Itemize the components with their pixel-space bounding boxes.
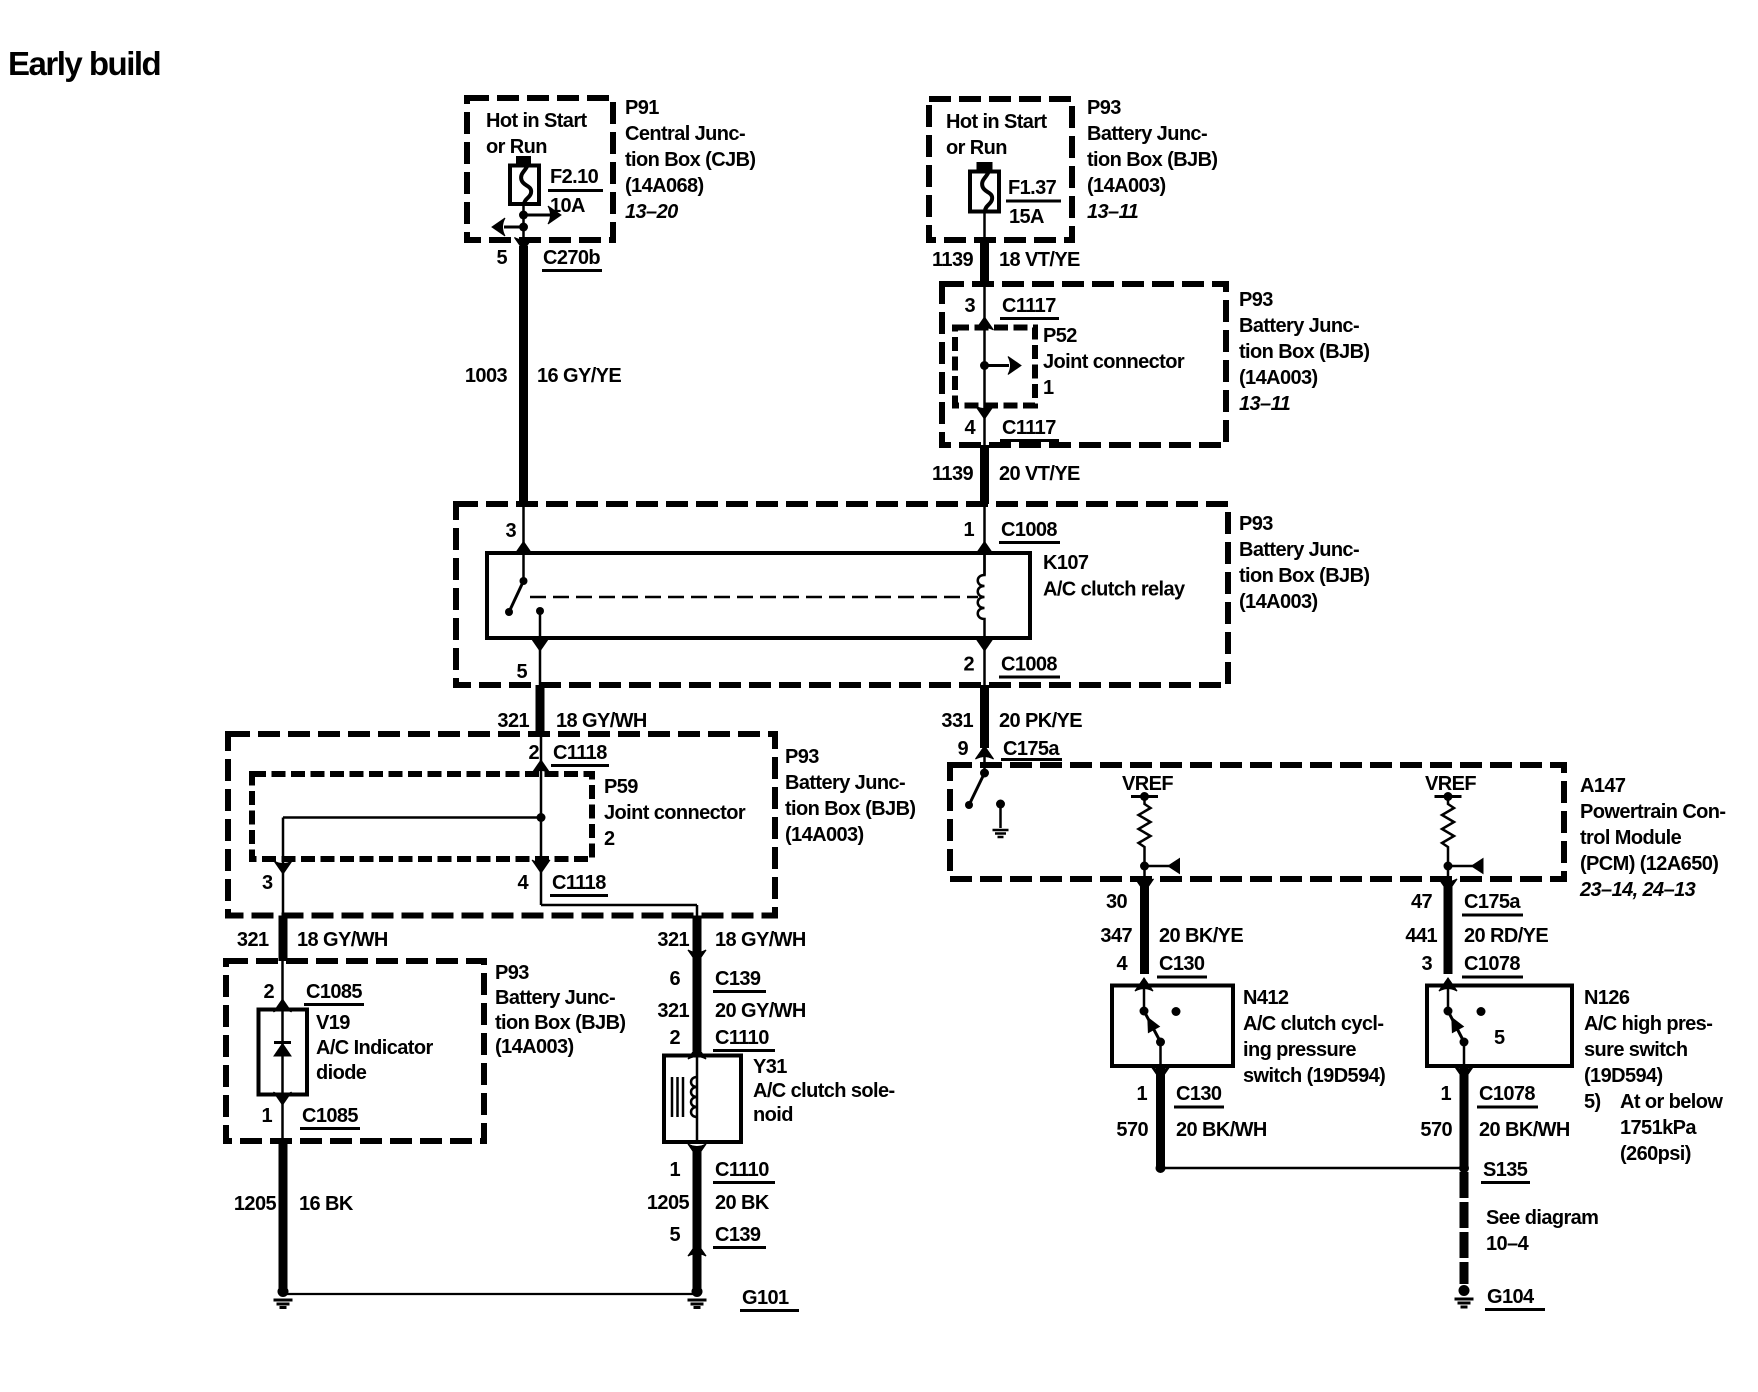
svg-text:(14A003): (14A003) (1239, 591, 1318, 613)
svg-text:F1.37: F1.37 (1008, 177, 1057, 199)
pin 2 C1085 (263, 961, 364, 1012)
svg-text:20 BK: 20 BK (715, 1192, 770, 1214)
wire to pin 3 (262, 818, 541, 916)
svg-text:18 GY/WH: 18 GY/WH (715, 929, 806, 951)
svg-text:347: 347 (1100, 925, 1132, 947)
svg-text:C1110: C1110 (715, 1159, 769, 1181)
diode V19 body (259, 1010, 308, 1142)
arrow at connector C270b (515, 238, 533, 251)
svg-text:2: 2 (669, 1027, 680, 1049)
svg-text:G101: G101 (742, 1287, 789, 1309)
svg-text:18 GY/WH: 18 GY/WH (297, 929, 388, 951)
svg-text:16 BK: 16 BK (299, 1193, 354, 1215)
svg-text:VREF: VREF (1425, 773, 1476, 795)
svg-text:20 RD/YE: 20 RD/YE (1464, 925, 1548, 947)
pin 2 C1008 (963, 638, 1060, 685)
svg-text:trol Module: trol Module (1580, 827, 1682, 849)
joint connector P52 inner box (955, 328, 1035, 406)
Y31 label (753, 1056, 895, 1126)
svg-text:331: 331 (941, 710, 973, 732)
svg-text:P93: P93 (1239, 513, 1273, 535)
svg-text:sure switch: sure switch (1584, 1039, 1687, 1061)
fuse F2.10 10A (510, 157, 603, 218)
svg-text:N126: N126 (1584, 987, 1630, 1009)
svg-text:20 BK/YE: 20 BK/YE (1159, 925, 1243, 947)
svg-text:P52: P52 (1043, 325, 1077, 347)
svg-text:C1085: C1085 (302, 1105, 358, 1127)
svg-text:A147: A147 (1580, 775, 1626, 797)
svg-text:321: 321 (657, 1000, 689, 1022)
svg-text:Battery Junc-: Battery Junc- (785, 772, 905, 794)
svg-text:441: 441 (1405, 925, 1437, 947)
svg-text:Central Junc-: Central Junc- (625, 123, 745, 145)
pin 3 C1078 (1421, 953, 1523, 991)
svg-text:1: 1 (1440, 1083, 1451, 1105)
svg-text:tion Box (BJB): tion Box (BJB) (495, 1012, 625, 1034)
arrow at connector C1078 pin 3 (1439, 978, 1457, 991)
svg-text:VREF: VREF (1122, 773, 1173, 795)
pin 1 C130 (1136, 1067, 1224, 1107)
svg-text:6: 6 (669, 968, 680, 990)
wire 321 18 GY/WH (right branch) (657, 916, 806, 1052)
off-page wire to G104 (1464, 1172, 1598, 1284)
PCM internal switch (965, 769, 989, 810)
svg-text:1: 1 (1136, 1083, 1147, 1105)
joint connector P59 inner box (252, 774, 592, 859)
svg-text:2: 2 (963, 654, 974, 676)
svg-text:or Run: or Run (486, 136, 547, 158)
BJB box around P59 (228, 734, 775, 916)
svg-text:Hot in Start: Hot in Start (486, 110, 588, 132)
N126 label block (1584, 987, 1723, 1165)
wire 570 20 BK/WH (left) (1116, 1068, 1267, 1168)
relay switch (505, 577, 544, 616)
wire 1139 18 VT/YE (932, 240, 1080, 284)
svg-text:C130: C130 (1159, 953, 1205, 975)
svg-text:Hot in Start: Hot in Start (946, 111, 1048, 133)
svg-text:At or below: At or below (1620, 1091, 1723, 1113)
svg-text:13–11: 13–11 (1087, 201, 1139, 223)
svg-text:P91: P91 (625, 97, 659, 119)
svg-text:(14A068): (14A068) (625, 175, 704, 197)
svg-text:Powertrain Con-: Powertrain Con- (1580, 801, 1725, 823)
svg-text:10–4: 10–4 (1486, 1233, 1530, 1255)
P93 (V19 box) label block (495, 962, 625, 1058)
connector C139 pin 5 (669, 1224, 766, 1256)
svg-text:2: 2 (528, 742, 539, 764)
svg-text:or Run: or Run (946, 137, 1007, 159)
svg-text:20 BK/WH: 20 BK/WH (1176, 1119, 1267, 1141)
svg-text:C1078: C1078 (1464, 953, 1520, 975)
svg-text:(14A003): (14A003) (1239, 367, 1318, 389)
svg-text:Battery Junc-: Battery Junc- (1239, 539, 1359, 561)
svg-text:570: 570 (1116, 1119, 1148, 1141)
pin 4 C1117 (964, 406, 1059, 441)
svg-text:A/C Indicator: A/C Indicator (316, 1037, 433, 1059)
pin 1 C1085 (261, 1092, 360, 1129)
P59 label (604, 776, 746, 850)
wire 321 20 GY/WH (657, 1000, 806, 1022)
svg-text:noid: noid (753, 1104, 793, 1126)
svg-text:2: 2 (263, 981, 274, 1003)
wire 321 18 GY/WH (left branch) (237, 916, 388, 962)
svg-text:C270b: C270b (543, 247, 600, 269)
svg-text:20 BK/WH: 20 BK/WH (1479, 1119, 1570, 1141)
svg-text:(14A003): (14A003) (1087, 175, 1166, 197)
svg-text:C1117: C1117 (1002, 295, 1056, 317)
svg-text:5: 5 (496, 247, 507, 269)
connector C139 pin 6 (669, 950, 766, 992)
svg-text:(14A003): (14A003) (495, 1036, 574, 1058)
wire 1003 16 GY/YE (465, 246, 621, 504)
arrow at connector C130 pin 4 (1135, 978, 1153, 991)
pin 4 C130 (1116, 953, 1207, 991)
svg-text:C1008: C1008 (1001, 519, 1057, 541)
svg-text:(19D594): (19D594) (1584, 1065, 1663, 1087)
svg-text:tion Box (BJB): tion Box (BJB) (785, 798, 915, 820)
svg-text:P93: P93 (1087, 97, 1121, 119)
wire 347 20 BK/YE (1100, 884, 1243, 974)
arrow at PCM pin 47 (1439, 879, 1457, 892)
svg-text:9: 9 (957, 738, 968, 760)
svg-text:C139: C139 (715, 968, 761, 990)
pin 9 entry arrow (976, 746, 994, 773)
svg-text:Battery Junc-: Battery Junc- (495, 987, 615, 1009)
pin 5 wire (516, 611, 549, 734)
PCM A147 box (950, 765, 1564, 879)
svg-text:tion Box (BJB): tion Box (BJB) (1087, 149, 1217, 171)
svg-text:K107: K107 (1043, 552, 1089, 574)
svg-text:tion Box (BJB): tion Box (BJB) (1239, 341, 1369, 363)
pin 30 exit (1106, 866, 1154, 913)
wire 321 18 GY/WH (relay to P59) (497, 685, 647, 734)
VREF pullup resistor (right) (1425, 773, 1483, 874)
svg-text:tion Box (CJB): tion Box (CJB) (625, 149, 755, 171)
P52 internal junction + arrow (980, 357, 1021, 375)
V19 label (316, 1012, 433, 1084)
svg-text:1139: 1139 (932, 249, 973, 271)
svg-text:20 VT/YE: 20 VT/YE (999, 463, 1080, 485)
svg-text:P93: P93 (1239, 289, 1273, 311)
svg-text:1: 1 (261, 1105, 272, 1127)
svg-text:A/C clutch sole-: A/C clutch sole- (753, 1080, 895, 1102)
pin 1 C1078 (1440, 1067, 1538, 1107)
svg-text:Joint connector: Joint connector (604, 802, 746, 824)
svg-text:321: 321 (237, 929, 269, 951)
N412 label block (1243, 987, 1385, 1087)
svg-text:1: 1 (963, 519, 974, 541)
arrow at connector C1110 pin 1 (688, 1144, 706, 1157)
wire 331 20 PK/YE (941, 685, 1082, 760)
pin 3 wire (505, 504, 532, 581)
svg-text:C175a: C175a (1003, 738, 1060, 760)
svg-text:C175a: C175a (1464, 891, 1521, 913)
svg-text:570: 570 (1420, 1119, 1452, 1141)
P91 label block (625, 97, 755, 223)
BJB box around relay K107 (456, 504, 1228, 685)
arrow at connector C139 pin 5 (688, 1243, 706, 1256)
wire 441 20 RD/YE (1405, 884, 1548, 974)
wire 1139 20 VT/YE (932, 445, 1080, 504)
ground (left, V19) (274, 1286, 293, 1308)
svg-text:321: 321 (657, 929, 689, 951)
svg-text:C130: C130 (1176, 1083, 1222, 1105)
svg-text:23–14, 24–13: 23–14, 24–13 (1579, 879, 1696, 901)
arrow at PCM pin 30 (1136, 879, 1154, 892)
svg-text:16 GY/YE: 16 GY/YE (537, 365, 621, 387)
svg-text:5: 5 (516, 661, 527, 683)
svg-text:C1118: C1118 (552, 872, 606, 894)
connector C1110 pin 1 (669, 1144, 775, 1183)
svg-text:P93: P93 (495, 962, 529, 984)
svg-text:Battery Junc-: Battery Junc- (1087, 123, 1207, 145)
svg-text:1003: 1003 (465, 365, 508, 387)
svg-text:F2.10: F2.10 (550, 166, 599, 188)
wire 1205 16 BK (234, 1141, 354, 1288)
svg-text:G104: G104 (1487, 1286, 1535, 1308)
arrow at connector C130 pin 1 (1152, 1067, 1170, 1080)
svg-text:4: 4 (1116, 953, 1128, 975)
P52 label (1043, 325, 1185, 399)
svg-text:V19: V19 (316, 1012, 350, 1034)
pin 3 C1117 (964, 295, 1059, 330)
svg-text:15A: 15A (1009, 206, 1044, 228)
svg-text:18 GY/WH: 18 GY/WH (556, 710, 647, 732)
CJB P91 box (467, 98, 613, 240)
svg-text:(14A003): (14A003) (785, 824, 864, 846)
BJB P93 top box (929, 99, 1072, 240)
svg-text:C1118: C1118 (553, 742, 607, 764)
solenoid Y31 body (664, 1056, 741, 1143)
svg-text:20 GY/WH: 20 GY/WH (715, 1000, 806, 1022)
connector C1110 pin 2 (669, 1027, 775, 1059)
ground bus wire (283, 1293, 697, 1295)
splice S135 (1156, 1159, 1531, 1183)
svg-text:Joint connector: Joint connector (1043, 351, 1185, 373)
BJB box around P52 (942, 284, 1226, 445)
svg-text:See diagram: See diagram (1486, 1207, 1598, 1229)
P93 top label block (1087, 97, 1217, 223)
VREF pullup resistor (left) (1122, 773, 1180, 874)
svg-text:2: 2 (604, 828, 615, 850)
svg-text:1: 1 (669, 1159, 680, 1181)
svg-text:A/C high pres-: A/C high pres- (1584, 1013, 1712, 1035)
svg-text:C1078: C1078 (1479, 1083, 1535, 1105)
svg-text:switch (19D594): switch (19D594) (1243, 1065, 1385, 1087)
arrow at connector C1110 pin 2 (688, 1046, 706, 1059)
svg-text:18 VT/YE: 18 VT/YE (999, 249, 1080, 271)
svg-text:5: 5 (669, 1224, 680, 1246)
svg-text:3: 3 (1421, 953, 1432, 975)
svg-text:5: 5 (1494, 1027, 1505, 1049)
BJB box around V19 (226, 961, 484, 1141)
pin 2 C1118 (528, 734, 609, 905)
svg-text:C1117: C1117 (1002, 417, 1056, 439)
pressure switch N126 body (1427, 986, 1572, 1067)
svg-text:3: 3 (505, 520, 516, 542)
svg-text:C1085: C1085 (306, 981, 362, 1003)
svg-text:1139: 1139 (932, 463, 973, 485)
pin 5 connector C270b (496, 247, 602, 271)
svg-text:tion Box (BJB): tion Box (BJB) (1239, 565, 1369, 587)
svg-text:C1008: C1008 (1001, 654, 1057, 676)
arrow overlays on thick wires (515, 238, 1474, 1257)
svg-text:Battery Junc-: Battery Junc- (1239, 315, 1359, 337)
P93 (P59 box) label block (785, 746, 915, 846)
svg-text:3: 3 (964, 295, 975, 317)
svg-text:20 PK/YE: 20 PK/YE (999, 710, 1082, 732)
relay actuation dashed line (530, 596, 978, 599)
pin 47 C175a exit (1411, 866, 1523, 915)
ground G104 (1455, 1285, 1546, 1310)
svg-text:1205: 1205 (234, 1193, 277, 1215)
svg-text:13–20: 13–20 (625, 201, 678, 223)
svg-text:Early build: Early build (8, 45, 160, 82)
svg-text:1751kPa: 1751kPa (1620, 1117, 1697, 1139)
svg-text:1: 1 (1043, 377, 1054, 399)
arrow at connector C1078 pin 1 (1455, 1067, 1473, 1080)
wire 570 20 BK/WH (right) (1420, 1068, 1570, 1168)
svg-text:30: 30 (1106, 891, 1128, 913)
P93 (relay box) label block (1239, 513, 1369, 613)
pin 1 C1008 (963, 504, 1060, 575)
wire 1205 20 BK (647, 1146, 770, 1288)
svg-text:ing pressure: ing pressure (1243, 1039, 1356, 1061)
svg-text:S135: S135 (1483, 1159, 1528, 1181)
wire through P52 (983, 284, 986, 445)
svg-text:(PCM) (12A650): (PCM) (12A650) (1580, 853, 1718, 875)
relay coil (978, 553, 985, 638)
PCM internal ground (993, 800, 1009, 838)
svg-text:P59: P59 (604, 776, 638, 798)
pressure switch N412 body (1112, 986, 1233, 1067)
pin 4 C1118 (517, 860, 697, 916)
svg-text:13–11: 13–11 (1239, 393, 1291, 415)
svg-text:4: 4 (517, 872, 529, 894)
svg-text:P93: P93 (785, 746, 819, 768)
svg-text:(260psi): (260psi) (1620, 1143, 1691, 1165)
P59 junction node (537, 813, 546, 822)
svg-text:321: 321 (497, 710, 529, 732)
ground G101 (688, 1286, 800, 1311)
svg-text:47: 47 (1411, 891, 1433, 913)
svg-text:N412: N412 (1243, 987, 1289, 1009)
svg-text:A/C clutch relay: A/C clutch relay (1043, 579, 1186, 601)
svg-text:diode: diode (316, 1062, 367, 1084)
svg-text:1205: 1205 (647, 1192, 690, 1214)
svg-text:C1110: C1110 (715, 1027, 769, 1049)
svg-text:C139: C139 (715, 1224, 761, 1246)
svg-text:3: 3 (262, 872, 273, 894)
A147 label block (1579, 775, 1725, 901)
svg-text:4: 4 (964, 417, 976, 439)
arrow at connector C139 pin 6 (688, 950, 706, 963)
wire fuse output + junctions (492, 204, 561, 251)
relay K107 body (487, 553, 1030, 638)
svg-text:5): 5) (1584, 1091, 1601, 1113)
svg-text:A/C clutch cycl-: A/C clutch cycl- (1243, 1013, 1383, 1035)
K107 label (1043, 552, 1186, 601)
fuse F1.37 15A (970, 163, 1061, 241)
svg-text:Y31: Y31 (753, 1056, 787, 1078)
arrow at connector C175a pin 9 (976, 746, 994, 759)
P93 (P52 box) label block (1239, 289, 1369, 415)
